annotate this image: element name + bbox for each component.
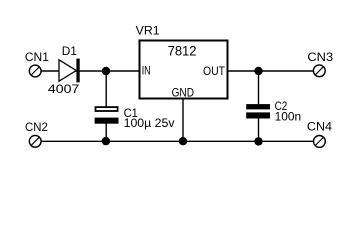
capacitor C2 — [246, 104, 270, 118]
node junction dot top C2 — [254, 67, 262, 75]
wire C1 branch lower — [105, 124, 107, 142]
wire top rail left (CN1 to VR1 IN) — [41, 70, 139, 72]
svg-text:CN2: CN2 — [25, 120, 48, 134]
connector CN4 — [314, 136, 326, 148]
connector CN1 — [29, 65, 41, 77]
connector CN2 — [29, 135, 41, 147]
svg-text:IN: IN — [142, 64, 151, 78]
node junction dot bottom C2 — [254, 137, 262, 145]
svg-text:D1: D1 — [62, 44, 78, 58]
svg-text:4007: 4007 — [48, 82, 80, 96]
wire C1 branch upper — [105, 71, 107, 107]
node junction dot bottom GND — [179, 137, 187, 145]
connector CN3 — [313, 65, 325, 77]
node junction dot top C1 — [102, 67, 110, 75]
voltage regulator VR1 (7812) body — [140, 41, 228, 99]
svg-text:100µ 25v: 100µ 25v — [124, 116, 175, 130]
wire GND pin to bottom rail — [182, 99, 184, 142]
wire C2 branch upper — [258, 71, 260, 104]
svg-text:CN3: CN3 — [307, 50, 333, 64]
svg-text:GND: GND — [172, 86, 195, 100]
svg-text:OUT: OUT — [203, 64, 226, 78]
diode D1 — [59, 59, 80, 83]
svg-text:CN1: CN1 — [25, 50, 49, 64]
svg-text:7812: 7812 — [168, 44, 197, 59]
svg-text:VR1: VR1 — [136, 23, 160, 37]
svg-text:CN4: CN4 — [307, 120, 332, 134]
wire C2 branch lower — [258, 118, 260, 141]
capacitor C1 (electrolytic) — [95, 106, 119, 124]
svg-text:100n: 100n — [275, 110, 302, 124]
node junction dot bottom C1 — [102, 137, 110, 145]
wire bottom rail (CN2 to CN4) — [41, 140, 314, 142]
wire top rail right (VR1 OUT to CN3) — [228, 70, 313, 72]
